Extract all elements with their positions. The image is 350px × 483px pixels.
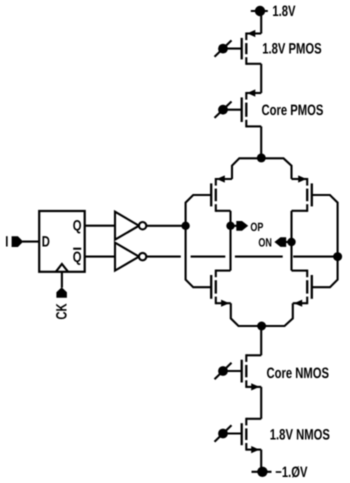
svg-text:1.8V PMOS: 1.8V PMOS (262, 40, 321, 57)
D flip-flop U1 box (39, 211, 84, 272)
node left bus junction (181, 222, 189, 230)
port CK (56, 287, 67, 297)
node top tail junction (257, 153, 266, 162)
inverter U3 (115, 243, 146, 271)
node right bus junction (333, 252, 342, 261)
svg-text:−1.ØV: −1.ØV (275, 464, 307, 481)
bias port M7 gate (215, 363, 242, 379)
node bottom tail junction (257, 322, 266, 331)
node ON junction (287, 238, 295, 246)
wire U2 output to left bus (146, 225, 185, 227)
wire M2 drain to top tail node (260, 126, 262, 157)
wire ON branch (290, 211, 292, 271)
wire Qbar to inverter U3 (85, 256, 116, 258)
wire U3 output segment 1 (146, 256, 181, 258)
wire OP branch (229, 211, 231, 271)
transistor M6 bridge NMOS right (292, 270, 312, 307)
wire 1.8V to M1 source (260, 11, 262, 34)
transistor M3 bridge PMOS left (211, 175, 232, 211)
wire M8 source to -1.0V (260, 450, 262, 472)
label Qbar (73, 249, 82, 266)
svg-text:1.8V NMOS: 1.8V NMOS (270, 426, 330, 443)
transistor M2 Core PMOS (242, 89, 262, 127)
wire U3 output segment 3 (235, 256, 283, 258)
port OP (236, 221, 248, 231)
bias port M8 gate (215, 425, 242, 441)
svg-text:CK: CK (54, 303, 71, 319)
supply node 1.8V (251, 6, 268, 16)
wire M4 gate to right bus (312, 195, 338, 287)
svg-text:ON: ON (258, 235, 272, 249)
transistor M8 1.8V NMOS (242, 418, 262, 453)
wire U3 output segment 4 (293, 256, 337, 258)
bias port M1 gate (215, 40, 242, 56)
port I (12, 236, 24, 247)
wire bottom node to M7 drain (260, 326, 262, 355)
wire U3 output segment 2 (191, 256, 226, 258)
clock triangle (56, 264, 68, 272)
svg-text:Core PMOS: Core PMOS (262, 102, 324, 119)
wire I to D input (23, 241, 40, 243)
wire Q to inverter U2 (85, 225, 116, 227)
wire ON stub (285, 241, 292, 243)
wire OP stub (231, 225, 238, 227)
supply node -1.0V (252, 467, 272, 477)
port ON (274, 237, 286, 247)
wire M1 drain to M2 source (260, 64, 262, 93)
node OP junction (226, 222, 234, 230)
svg-text:OP: OP (250, 220, 263, 234)
svg-text:Q: Q (73, 249, 82, 266)
bias port M2 gate (215, 102, 242, 118)
svg-text:Core NMOS: Core NMOS (267, 365, 330, 382)
svg-text:Q: Q (73, 218, 82, 235)
transistor M7 Core NMOS (242, 354, 262, 390)
transistor M5 bridge NMOS left (211, 270, 231, 307)
transistor M1 1.8V PMOS (242, 30, 262, 65)
wire bottom tail rail (231, 303, 293, 326)
svg-text:I: I (5, 233, 8, 250)
svg-text:1.8V: 1.8V (272, 3, 295, 20)
wire CK to clock pin (61, 272, 63, 288)
wire M7 source to M8 drain (260, 387, 262, 419)
wire M3 gate to left bus (186, 195, 212, 287)
wire top tail rail (232, 158, 292, 179)
inverter U2 (115, 212, 146, 240)
transistor M4 bridge PMOS right (292, 175, 312, 211)
svg-text:D: D (42, 233, 50, 250)
